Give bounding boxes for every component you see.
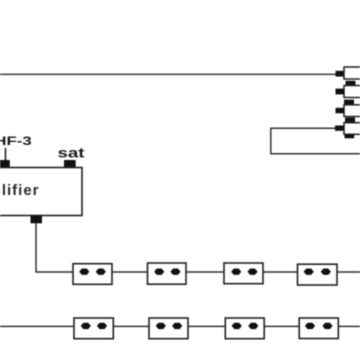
node N4 connector of receiver box 4 [335,126,344,131]
outlet box 3 row 1 [224,263,263,284]
node N1 connector of receiver box 1 [336,71,345,77]
wire: amplifier output down to outlet row 1 [36,223,73,272]
connector bar C on top of receiver box 4 [345,117,355,122]
outlet box 4 row 2 [299,318,338,339]
wire: main antenna line to receiver 1 [0,73,336,75]
outlet box 2 row 2 [149,318,188,339]
receiver box 3 [344,105,360,117]
svg-text:VHF-3: VHF-3 [0,136,32,148]
receiver box 1 [344,67,360,79]
wire segments outlet row 2 [0,325,74,327]
connector: amplifier sat input nub [64,160,76,168]
amplifier box U1 (left part cut off) [0,168,82,216]
outlet box 2 row 1 [148,263,187,284]
outlet box 3 row 2 [225,318,264,339]
svg-text:sat: sat [58,145,85,161]
svg-text:amplifier: amplifier [0,182,40,199]
receiver box 2 [344,86,360,98]
connector bar A on top of receiver box 2 [346,81,356,86]
connector bar D below receiver box 4 [345,135,355,139]
node N3 connector of receiver box 3 [336,108,345,114]
wire: receiver 4 loop down and off right edge [271,128,360,154]
outlet box 1 row 1 [73,264,112,285]
wire: VHF-3 lead into amplifier input [5,148,7,161]
node N2 connector of receiver box 2 [336,89,345,95]
connector bar B on top of receiver box 3 [344,100,354,105]
connector: amplifier VHF input nub [0,160,10,168]
wire segments outlet row 1 [112,271,148,273]
connector: amplifier output nub [31,216,43,224]
outlet box 1 row 2 [74,318,113,339]
receiver box 4 [344,123,360,135]
outlet box 4 row 1 [298,264,338,285]
